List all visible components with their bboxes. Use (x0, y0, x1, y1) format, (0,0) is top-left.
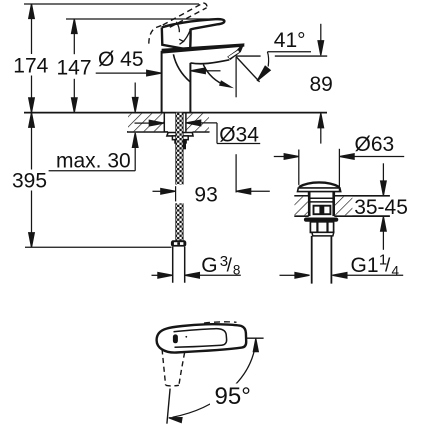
svg-text:35-45: 35-45 (354, 196, 408, 219)
braided hose upper (176, 113, 183, 185)
label G 1 1/4 (280, 273, 404, 279)
basin hatch left (295, 197, 308, 216)
svg-text:95°: 95° (215, 383, 251, 410)
basin top line (294, 195, 390, 197)
95 degree arc (169, 339, 258, 423)
handle top view small dot (185, 336, 187, 338)
svg-text:/: / (385, 256, 391, 277)
basin hatch right (335, 197, 352, 216)
label max. 30 (49, 83, 138, 171)
hose break edge line (175, 186, 177, 201)
dimension 395 (25, 113, 172, 248)
dimension 35-45 (381, 163, 387, 250)
dimension 174 (24, 4, 199, 112)
handle top view inner outline (174, 329, 227, 348)
label 41 degrees (257, 52, 311, 81)
svg-text:4: 4 (392, 264, 400, 279)
hose ferrule dark block (182, 140, 186, 149)
spout top wedge (162, 43, 245, 53)
body-spout inner arc (173, 54, 190, 81)
braided hose lower (176, 203, 183, 241)
label diameter 63 (274, 149, 404, 191)
svg-text:G: G (201, 254, 217, 277)
svg-text:93: 93 (194, 183, 217, 206)
drain nut (310, 222, 333, 236)
handle top view outer outline (157, 324, 247, 352)
drain body separators (308, 198, 335, 202)
shank left edge (163, 113, 165, 132)
svg-text:147: 147 (57, 57, 92, 80)
handle rotated position dashed (162, 349, 185, 386)
dimension 89 (318, 24, 324, 144)
handle raised position dashed (149, 3, 207, 44)
drain window (314, 206, 331, 215)
dimension 147 (66, 19, 216, 112)
svg-text:89: 89 (310, 73, 333, 96)
counter bottom line (127, 131, 210, 133)
svg-text:395: 395 (12, 170, 47, 193)
faucet body right edge (189, 63, 191, 113)
supply tube (173, 247, 185, 283)
handle top view dashes above (204, 322, 237, 323)
faucet body left edge (161, 51, 163, 113)
dimension 93 (153, 57, 270, 194)
svg-text:/: / (227, 256, 233, 277)
svg-text:Ø63: Ø63 (355, 133, 395, 156)
inclined stream line (236, 57, 259, 82)
svg-text:8: 8 (233, 262, 241, 277)
drain flange (304, 218, 338, 222)
handle notch (179, 39, 183, 44)
svg-text:G1: G1 (351, 254, 379, 277)
svg-text:Ø 45: Ø 45 (98, 48, 144, 71)
flow arc with arrow under spout (203, 65, 234, 89)
counter hatch left (128, 114, 164, 132)
handle top view dot (173, 334, 178, 343)
handle seam right (183, 30, 190, 42)
handle seam left (176, 22, 179, 32)
svg-text:41°: 41° (274, 29, 306, 52)
label diameter 45 (96, 68, 221, 76)
svg-text:max. 30: max. 30 (56, 150, 131, 173)
handle lever outline (162, 19, 225, 49)
svg-text:Ø34: Ø34 (219, 123, 259, 146)
counter top line (24, 112, 327, 114)
drain body side bars (308, 192, 335, 217)
label G 3/8 (152, 273, 241, 279)
svg-text:174: 174 (13, 55, 48, 78)
drain pipe (312, 236, 332, 284)
horizontal reference line (245, 337, 263, 339)
drain cap rim (298, 188, 341, 192)
hose end fitting (171, 240, 186, 246)
shank right edge (185, 113, 187, 132)
rotation reference line (167, 389, 170, 424)
spout underside curve (190, 60, 229, 64)
drain cap dome (299, 182, 339, 187)
label diameter 34 (135, 120, 261, 143)
spout tip and aerator (227, 43, 244, 60)
counter hatch right (186, 114, 209, 132)
spout outlet reference line (236, 55, 328, 57)
mounting nut (167, 133, 193, 143)
basin bottom line (294, 215, 390, 217)
